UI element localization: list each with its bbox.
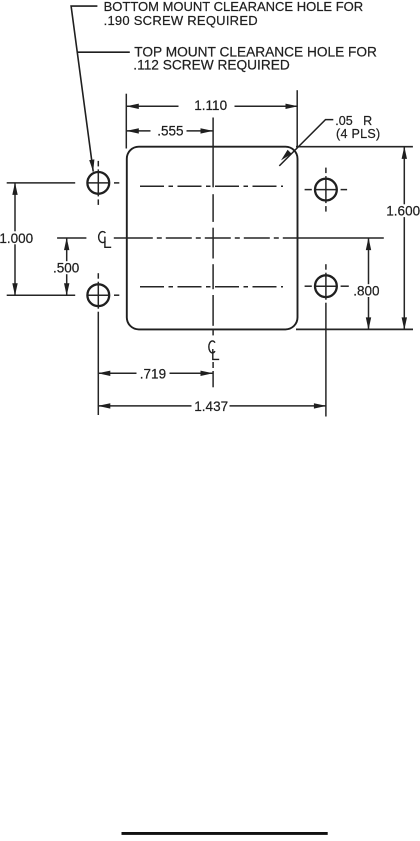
- svg-text:.555: .555: [157, 124, 183, 139]
- dimension .800 line: [368, 238, 370, 329]
- dimension 1.437 label: [192, 400, 230, 413]
- dimension .555 line: [127, 130, 213, 132]
- dimension 1.000 line: [14, 183, 16, 295]
- bottom border bar: [122, 832, 328, 835]
- dimension 1.437 line: [98, 405, 326, 407]
- dimension 1.000 label: [0, 231, 34, 244]
- hole upper-left: [87, 172, 109, 194]
- dimension 1.600 line: [403, 147, 405, 330]
- dimension .500 label: [51, 261, 81, 274]
- plate outline (rounded square): [127, 147, 298, 330]
- bottom edge extension line to right: [296, 328, 413, 330]
- svg-text:(4 PLS): (4 PLS): [336, 127, 380, 141]
- top edge extension line to right: [296, 146, 413, 148]
- dimension .719 label: [137, 367, 170, 380]
- hole lower-right: [315, 275, 337, 297]
- extension line below lower-right hole (for 1.437): [325, 303, 327, 417]
- extension line left (for 1.110 / .555): [125, 94, 127, 149]
- svg-text:.719: .719: [140, 366, 166, 381]
- extension line below lower-left hole (for .719 / 1.437): [97, 312, 99, 415]
- hole upper-right: [315, 179, 337, 201]
- svg-text:.112 SCREW REQUIRED: .112 SCREW REQUIRED: [133, 58, 290, 73]
- horizontal main centre line y=238: [57, 237, 384, 239]
- svg-text:BOTTOM MOUNT CLEARANCE HOLE FO: BOTTOM MOUNT CLEARANCE HOLE FOR: [104, 0, 364, 14]
- lower-left hole centre mark / 1.000 bottom extension: [7, 273, 120, 309]
- radius leader line: [279, 120, 333, 166]
- extension line right (for 1.110): [296, 90, 298, 146]
- svg-text:1.437: 1.437: [194, 399, 228, 414]
- svg-text:.190 SCREW REQUIRED: .190 SCREW REQUIRED: [104, 13, 258, 28]
- upper-right hole centre mark: [305, 168, 348, 212]
- leader from BOTTOM MOUNT note to lower-left hole: [71, 6, 97, 171]
- dimension .719 line: [98, 372, 212, 374]
- vertical centre line x=213: [212, 118, 214, 388]
- leader arrowhead at lower-left hole: [89, 159, 94, 171]
- dimension .555 label: [151, 125, 187, 138]
- svg-text:.500: .500: [53, 260, 79, 275]
- leader from TOP MOUNT note joining diagonal: [77, 51, 130, 53]
- hole lower-left: [87, 284, 109, 306]
- lower-right hole centre mark: [305, 264, 349, 300]
- radius callout .05 R (4 PLS): [335, 114, 380, 141]
- CL symbol bottom: [209, 341, 219, 359]
- dimension 1.600 label: [385, 204, 420, 217]
- svg-text:.800: .800: [353, 283, 379, 298]
- note: top mount clearance hole text: [133, 45, 377, 73]
- dimension .800 label: [351, 284, 380, 297]
- radius leader arrowhead: [281, 150, 292, 161]
- svg-text:1.110: 1.110: [194, 98, 227, 113]
- dimension .500 line: [66, 238, 68, 295]
- dimension 1.110 line: [127, 105, 298, 107]
- interior centre line top holes: [140, 185, 283, 187]
- interior centre line bottom holes: [140, 286, 283, 288]
- CL symbol left: [99, 232, 112, 248]
- svg-text:1.600: 1.600: [386, 203, 420, 218]
- svg-text:1.000: 1.000: [0, 231, 33, 246]
- note: bottom mount clearance hole text: [104, 0, 364, 28]
- upper-left hole centre mark / 1.000 top extension: [7, 161, 120, 205]
- dimension 1.110 label: [179, 100, 235, 113]
